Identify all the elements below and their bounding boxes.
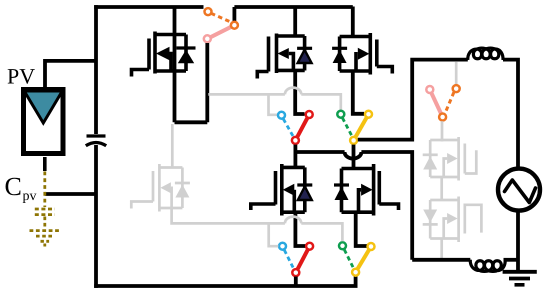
drain stub M1 bbox=[155, 33, 186, 37]
wire PV negative to DC bus bbox=[45, 192, 96, 196]
source stub MG2 bbox=[430, 176, 458, 179]
wire M2 drain to rail bbox=[293, 7, 297, 37]
body diode D1 bbox=[184, 35, 188, 72]
body diode D4 bbox=[303, 167, 307, 212]
wire gray bottom tap right leg bbox=[440, 239, 443, 259]
wire M3 drain to rail bbox=[351, 7, 355, 37]
wire stub rail to switch node SW1b bbox=[232, 7, 236, 21]
wire inductor L2 to ground node bbox=[504, 258, 519, 262]
switch SW5 closed blade (yellow) bbox=[356, 247, 371, 273]
wire top rail segment 1 bbox=[94, 5, 203, 9]
wire phase A pole to M4 drain bbox=[293, 145, 297, 168]
gate lead M4 bbox=[251, 204, 276, 210]
body diode D5 bbox=[340, 169, 344, 213]
body arrow MG1 bbox=[160, 182, 171, 193]
transistor M5 with body diode (mirrored) bbox=[334, 164, 399, 216]
gate bar M5 bbox=[377, 171, 381, 205]
wire M5 source to SW5 contact bbox=[356, 212, 367, 246]
wire M1 source node horizontal bbox=[175, 120, 208, 124]
PV module bbox=[24, 90, 64, 154]
node SW1 contact B (orange) bbox=[231, 22, 238, 29]
node SW1 pole (pink) bbox=[204, 35, 211, 42]
wire M3 source to SW3 contact bbox=[353, 71, 364, 114]
gate bar M1 bbox=[147, 39, 151, 70]
drain stub M2 bbox=[277, 34, 305, 38]
gate bar M2 bbox=[267, 37, 271, 72]
AC source Vg bbox=[498, 169, 540, 211]
transistor M4 with body diode (navy) bbox=[251, 164, 312, 216]
gate lead M1 bbox=[132, 70, 150, 77]
drain stub MG2 bbox=[430, 139, 458, 142]
inductor L1 (top) bbox=[468, 48, 503, 60]
node SW6 contact left (pink) bbox=[426, 86, 433, 93]
wire M2 source to SW2 contact bbox=[295, 70, 304, 114]
wire bottom rail bbox=[94, 277, 355, 287]
channel bar M1 bbox=[153, 32, 157, 74]
drain stub MG1 bbox=[159, 166, 182, 169]
switch SW1 closed blade (pink) bbox=[207, 25, 234, 39]
source stub M5 bbox=[342, 210, 374, 214]
body arrow MG3 bbox=[447, 213, 458, 224]
wire gray stub top rail to SW6 bbox=[455, 61, 458, 84]
wire phase A branch to lower right leg (with hop) bbox=[295, 152, 412, 260]
drain stub M5 bbox=[342, 167, 374, 171]
switch SW2 dashed cyan path bbox=[283, 119, 293, 137]
channel bar M3 bbox=[368, 33, 372, 75]
wire gray net top from M1 source column bbox=[208, 88, 340, 115]
source stub MG3 bbox=[430, 237, 458, 240]
gate lead MG3 bbox=[465, 205, 482, 233]
channel bar MG1 bbox=[158, 164, 161, 212]
wire phase B to upper right leg bbox=[358, 60, 468, 140]
node SW4 pole (red) bbox=[292, 269, 299, 276]
body arrow M5 bbox=[361, 184, 373, 196]
channel bar MG2 bbox=[457, 137, 460, 181]
channel bar M4 bbox=[280, 164, 284, 216]
wire DC bus left rail lower bbox=[94, 145, 98, 288]
switch SW2 closed blade (red) bbox=[295, 115, 309, 141]
switch SW3 dashed green path bbox=[342, 118, 352, 137]
gate lead M3 bbox=[377, 67, 393, 74]
capacitor C1 DC link bbox=[86, 136, 106, 146]
wire gray MG1 drain up to M1 source node bbox=[171, 124, 174, 168]
transistor M1 with body diode bbox=[132, 32, 196, 77]
body arrow M4 bbox=[283, 184, 295, 196]
source stub M3 bbox=[340, 69, 371, 73]
wire bottom right leg to inductor bbox=[412, 258, 470, 262]
capacitor Cpv plates bbox=[35, 209, 55, 229]
node SW2 contact closed (red) bbox=[306, 111, 313, 118]
drain stub M3 bbox=[340, 35, 371, 39]
gate bar M3 bbox=[375, 40, 379, 67]
body arrow M2 bbox=[278, 48, 289, 59]
node SW5 contact closed (yellow) bbox=[368, 243, 375, 250]
body diode D3 bbox=[338, 37, 342, 72]
body diode DG1 bbox=[181, 168, 184, 209]
gate lead M2 bbox=[257, 72, 268, 79]
wire top right leg coil feed bbox=[503, 60, 518, 170]
transistor MG2 gray (right leg upper, mirrored) with body diode bbox=[423, 137, 477, 181]
drain stub MG3 bbox=[430, 199, 458, 202]
body diode DG2 bbox=[429, 140, 432, 177]
node SW2 contact open (cyan) bbox=[278, 112, 285, 119]
body diode D2 bbox=[303, 36, 307, 71]
gate bar M4 bbox=[274, 171, 278, 205]
body arrow M1 bbox=[156, 47, 170, 60]
switch SW6 dashed orange path bbox=[445, 92, 454, 113]
inductor L2 (bottom) bbox=[470, 260, 505, 272]
node SW3 pole (yellow) bbox=[350, 137, 357, 144]
transistor M3 with body diode (mirrored) bbox=[332, 33, 392, 75]
source stub M2 bbox=[277, 69, 305, 73]
node SW6 pole (orange) bbox=[439, 114, 446, 121]
transistor MG3 gray (right leg lower, mirrored, flipped) with body diode bbox=[423, 197, 482, 243]
wire DC bus left rail upper bbox=[94, 5, 98, 134]
capacitor Cpv parasitic dashed lead bbox=[43, 157, 47, 207]
wire phase B pole to M5 drain bbox=[352, 145, 356, 169]
switch SW4 closed blade (red) bbox=[296, 246, 310, 272]
transistor M2 with body diode (navy) bbox=[257, 34, 312, 79]
channel bar M5 bbox=[372, 164, 376, 216]
node SW5 pole (yellow) bbox=[352, 269, 359, 276]
gate bar MG1 bbox=[152, 171, 155, 202]
ground symbol bbox=[503, 272, 537, 285]
Cpv label bbox=[6, 178, 37, 203]
source stub M1 bbox=[155, 69, 186, 73]
node SW3 contact open (green) bbox=[337, 111, 344, 118]
wire gray SW6 pole to gray leg bbox=[441, 121, 444, 141]
gate lead MG1 bbox=[131, 202, 153, 209]
wire SW4 pole stub to bottom rail bbox=[294, 277, 298, 287]
node SW4 contact closed (red) bbox=[306, 243, 313, 250]
body diode DG3 (reversed) bbox=[429, 200, 432, 239]
switch SW5 dashed green path bbox=[344, 250, 353, 269]
wire M4 source to SW4 contact bbox=[295, 212, 305, 246]
channel bar M2 bbox=[275, 34, 279, 74]
node SW5 contact open (green) bbox=[339, 242, 346, 249]
wire AC source to ground bbox=[516, 210, 520, 271]
wire SW1 pole down to M1 source node bbox=[205, 43, 209, 122]
body arrow M3 bbox=[358, 48, 370, 60]
switch SW3 closed blade (yellow) bbox=[354, 114, 369, 140]
wire PV positive to DC bus bbox=[45, 61, 96, 88]
body arrow MG2 bbox=[447, 153, 458, 164]
node SW1 contact A (orange) bbox=[205, 8, 212, 15]
gate bar MG3 bbox=[463, 204, 466, 234]
PV label bbox=[8, 69, 35, 84]
ground dashed (Cpv) bbox=[30, 231, 61, 247]
node SW3 contact closed (yellow) bbox=[365, 111, 372, 118]
transistor MG1 gray (below M1) with body diode bbox=[131, 164, 190, 212]
source stub MG1 bbox=[159, 207, 182, 210]
wire M1 spine rail to source node bbox=[173, 7, 177, 123]
node SW2 pole (red) bbox=[292, 137, 299, 144]
switch SW1 dashed orange path bbox=[211, 13, 232, 22]
source stub M4 bbox=[282, 210, 305, 214]
drain stub M4 bbox=[282, 166, 305, 170]
wire gray mid connector right leg bbox=[440, 177, 443, 200]
switch SW4 dashed cyan path bbox=[284, 250, 293, 269]
gate bar MG2 bbox=[463, 144, 466, 174]
switch SW6 open blade (pink) bbox=[430, 90, 443, 118]
gate lead M5 bbox=[379, 204, 398, 210]
wire gray net bottom from MG1 source bbox=[172, 208, 343, 246]
wire top rail segment 2 bbox=[234, 5, 352, 9]
node SW6 contact top (orange) bbox=[453, 85, 460, 92]
channel bar MG3 bbox=[457, 197, 460, 243]
node SW4 contact open (cyan) bbox=[279, 243, 286, 250]
gate lead MG2 bbox=[465, 150, 477, 173]
